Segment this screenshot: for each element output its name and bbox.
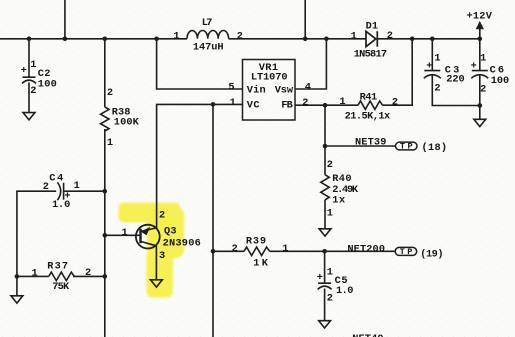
transistor Q3 collector diagonal (bottom) xyxy=(141,241,157,245)
capacitor C2 plates xyxy=(22,77,36,83)
svg-text:1: 1 xyxy=(32,268,38,280)
TP oval NET39 xyxy=(396,142,418,150)
svg-text:+: + xyxy=(471,61,477,73)
svg-text:(18): (18) xyxy=(422,142,448,154)
svg-text:1: 1 xyxy=(327,267,333,279)
node NET200 / C5 junction xyxy=(322,249,327,254)
svg-text:Vin: Vin xyxy=(247,84,266,96)
svg-text:2: 2 xyxy=(30,85,36,97)
svg-text:2: 2 xyxy=(237,30,243,42)
node FB / R41 junction xyxy=(323,103,328,108)
junction at C2 top xyxy=(27,37,32,42)
resistor R40 body xyxy=(321,175,329,200)
svg-text:2: 2 xyxy=(480,84,486,96)
svg-text:NET40: NET40 xyxy=(352,333,383,337)
svg-text:100: 100 xyxy=(38,78,57,90)
svg-text:+12V: +12V xyxy=(467,10,493,22)
svg-text:2: 2 xyxy=(85,267,91,279)
svg-text:2: 2 xyxy=(392,97,398,109)
svg-text:220: 220 xyxy=(446,74,465,86)
wire: top rail between L7 and D1 xyxy=(229,38,366,40)
wire: R37 ground stub xyxy=(16,276,18,295)
svg-text:1: 1 xyxy=(122,227,128,239)
junction NET200 / middle rail xyxy=(211,249,216,254)
svg-text:1: 1 xyxy=(480,52,486,64)
svg-text:3: 3 xyxy=(159,250,165,262)
svg-text:D1: D1 xyxy=(366,21,378,33)
resistor R39 body xyxy=(244,247,270,255)
svg-text:1: 1 xyxy=(107,137,113,149)
svg-text:147uH: 147uH xyxy=(193,42,224,54)
svg-text:1: 1 xyxy=(282,243,288,255)
wire: vertical from top edge to rail at x=64.9 xyxy=(64,0,66,39)
TP oval NET200 xyxy=(395,247,417,255)
wire: NET39 horizontal to TP xyxy=(325,145,396,147)
junction R37 pin2 / rail xyxy=(103,274,108,279)
inductor L7 body xyxy=(187,30,229,38)
wire: C6 bottom stub to ground node xyxy=(479,75,481,119)
svg-text:2: 2 xyxy=(159,209,165,221)
wire: R39 right to TP NET200 xyxy=(270,250,396,252)
resistor R38 body xyxy=(101,107,109,131)
wire: main top rail y=38.8 left segment xyxy=(0,38,187,40)
svg-text:100: 100 xyxy=(491,75,510,87)
junction top rail / right top feed xyxy=(303,37,308,42)
svg-text:2: 2 xyxy=(302,97,308,109)
junction top rail / L7 pin1 riser xyxy=(154,37,159,42)
VR1 box xyxy=(243,60,296,121)
wire: left rail x=104.8 from top rail to bottom edge (through R38) xyxy=(104,39,106,107)
svg-text:+: + xyxy=(21,65,27,77)
wire: C2 bottom stub to ground xyxy=(28,83,30,113)
wire: NET200 horizontal left stub from rail to R39 xyxy=(213,250,244,252)
transistor Q3 base bar xyxy=(139,229,141,244)
ground under Q3 xyxy=(151,280,163,287)
junction top rail / C3 xyxy=(430,37,435,42)
wire: R40 bottom stub to ground xyxy=(324,200,326,229)
wire: NET39 node down to R40 xyxy=(324,146,326,175)
svg-text:NET39: NET39 xyxy=(355,137,386,149)
svg-text:+: + xyxy=(317,272,323,284)
svg-text:1: 1 xyxy=(74,180,80,192)
capacitor C3 plates xyxy=(424,71,441,79)
wire: C4 left wire and corner down xyxy=(17,191,105,276)
junction Q3 base / rail xyxy=(103,233,108,238)
ground under C2 xyxy=(23,113,35,120)
junction VC wire / middle rail xyxy=(211,102,216,107)
ground left of R37 xyxy=(11,296,23,303)
junction top rail / Vsw riser xyxy=(324,37,329,42)
svg-text:21.5K,1x: 21.5K,1x xyxy=(345,111,391,123)
svg-text:+: + xyxy=(426,61,432,73)
svg-text:1: 1 xyxy=(434,52,440,64)
wire: C5 top stub xyxy=(324,251,326,283)
junction C3/C6 ground bus xyxy=(478,103,483,108)
wire: C5 bottom stub to ground xyxy=(324,289,326,321)
svg-text:1N5817: 1N5817 xyxy=(354,49,387,61)
svg-text:1: 1 xyxy=(351,30,357,42)
svg-text:FB: FB xyxy=(281,100,293,112)
junction R37 pin1 / C4 / ground xyxy=(15,274,20,279)
svg-text:R41: R41 xyxy=(360,92,378,104)
resistor R37 body xyxy=(49,272,75,280)
node NET39 junction xyxy=(323,144,328,149)
wire: Vsw pin 4 up to top rail xyxy=(295,39,326,89)
ground under R40 xyxy=(319,229,331,236)
svg-text:1: 1 xyxy=(173,30,179,42)
svg-text:1.0: 1.0 xyxy=(52,199,70,211)
wire: vertical rail x=213.4 from VC wire to bottom edge xyxy=(212,104,214,337)
svg-text:L7: L7 xyxy=(202,17,213,29)
svg-text:1x: 1x xyxy=(332,195,345,207)
wire: VC pin 1 left then down to Q3 emitter xyxy=(157,104,243,228)
wire: C2 top stub xyxy=(28,39,30,77)
resistor R41 body xyxy=(358,101,382,109)
capacitor C4 plates (horizontal) xyxy=(57,182,63,200)
svg-text:R39: R39 xyxy=(246,236,266,248)
wire: C3 bottom stub and link to C6 ground node xyxy=(432,75,480,105)
svg-text:2N3906: 2N3906 xyxy=(163,238,201,250)
diode D1 xyxy=(366,31,377,46)
svg-text:1: 1 xyxy=(327,208,333,220)
svg-text:2: 2 xyxy=(232,243,238,255)
wire: FB pin 2 to R41 left xyxy=(295,104,358,106)
svg-text:Vsw: Vsw xyxy=(275,84,294,96)
junction C4 pin1 / rail xyxy=(103,189,108,194)
capacitor C6 plates xyxy=(471,71,488,79)
svg-text:R37: R37 xyxy=(47,260,68,272)
svg-text:2: 2 xyxy=(327,159,333,171)
svg-text:2: 2 xyxy=(43,181,49,193)
svg-text:1K: 1K xyxy=(253,257,268,269)
wire: top rail between D1 and +12V node xyxy=(378,38,480,40)
svg-text:1: 1 xyxy=(30,59,36,71)
svg-text:1: 1 xyxy=(339,96,345,108)
svg-text:1.0: 1.0 xyxy=(336,285,353,297)
svg-text:4: 4 xyxy=(305,82,311,94)
svg-text:100K: 100K xyxy=(114,117,140,129)
svg-text:Q3: Q3 xyxy=(164,225,177,237)
svg-text:C4: C4 xyxy=(49,172,63,184)
svg-text:5: 5 xyxy=(228,82,234,94)
power +12V arrow xyxy=(476,21,484,29)
svg-text:2: 2 xyxy=(387,30,393,42)
svg-text:2: 2 xyxy=(434,82,440,94)
wire: FB node down to NET39 node xyxy=(324,105,326,146)
wire: Vin riser from top rail down and over to VR1 pin 5 xyxy=(157,39,243,89)
wire: C3 top stub xyxy=(431,39,433,71)
wire: Q3 base from rail xyxy=(105,234,141,236)
wire: +12V stem through node to C6 top plate xyxy=(479,28,481,71)
svg-text:NET200: NET200 xyxy=(347,243,385,255)
wire: vertical from top edge to rail at x=305.2 xyxy=(304,0,306,39)
junction top rail / R41 riser xyxy=(410,37,415,42)
wire: Q3 bottom to ground xyxy=(155,246,157,280)
highlighter mark over Q3 xyxy=(119,203,185,298)
svg-text:2: 2 xyxy=(107,87,113,99)
capacitor C5 plates xyxy=(318,283,332,289)
junction top rail / left top feed xyxy=(63,37,68,42)
svg-text:2: 2 xyxy=(327,292,333,304)
svg-text:1: 1 xyxy=(230,97,236,109)
ground under C5 xyxy=(319,321,331,328)
wire: R37 right stub to rail xyxy=(73,275,105,277)
ground under C6/C3 xyxy=(474,119,486,126)
svg-text:75K: 75K xyxy=(52,281,70,293)
junction top rail / R38 rail xyxy=(103,37,108,42)
wire: R37 left stub xyxy=(17,275,49,277)
transistor Q3 circle xyxy=(136,225,160,249)
transistor Q3 emitter arrowhead xyxy=(141,227,151,235)
wire: R41 right up to top rail xyxy=(383,39,413,105)
transistor Q3 emitter diagonal (top) xyxy=(142,228,157,231)
svg-text:VC: VC xyxy=(247,100,260,112)
svg-text:LT1070: LT1070 xyxy=(251,71,288,83)
junction +12V node / C6 xyxy=(478,37,483,42)
svg-text:(19): (19) xyxy=(420,249,443,261)
